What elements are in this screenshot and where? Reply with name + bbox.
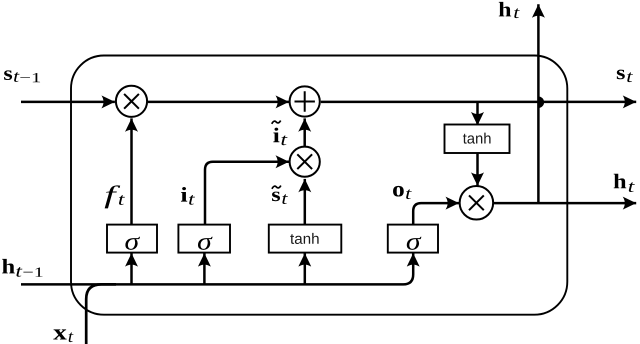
label o(t) <box>393 186 412 199</box>
plus node <box>290 86 320 116</box>
sigma box f gate <box>107 225 157 253</box>
wire candidate multiply up into plus node <box>303 118 306 146</box>
wire hop bump at crossing <box>538 97 543 107</box>
label s-tilde(t) <box>272 186 288 204</box>
label f(t) <box>105 185 125 208</box>
wire output multiply to h(t) right output <box>493 202 636 205</box>
wire o gate up and right into output multiply <box>413 203 459 225</box>
wire tanh box down to output multiply <box>476 153 479 186</box>
label i(t) <box>181 187 195 205</box>
wire s(t-1) input to multiply node <box>21 101 115 104</box>
wire h(t) branch vertical with hop over s line <box>537 4 540 203</box>
wire i gate up and right into candidate multiply <box>205 162 289 225</box>
label h(t) right <box>614 174 635 192</box>
wire x(t) input curving onto input line <box>86 284 116 344</box>
wire h(t-1) input line with branch arrows into gates <box>21 253 413 284</box>
wire multiply node to plus node <box>148 101 289 104</box>
label s(t-1) <box>4 70 40 82</box>
wire branch up into f sigma <box>130 253 133 284</box>
cell body rounded rectangle <box>71 56 567 315</box>
tanh box candidate <box>269 225 342 253</box>
multiply node output <box>460 186 494 220</box>
wire branch up into i sigma <box>203 253 206 284</box>
wire f gate vertical to multiply node <box>130 118 133 224</box>
sigma box i gate <box>178 225 230 253</box>
label i-tilde(t) <box>272 121 288 146</box>
tanh box output <box>445 125 510 154</box>
sigma box o gate <box>388 225 438 253</box>
label x(t) <box>53 329 73 342</box>
label h(t-1) <box>2 259 42 277</box>
multiply node candidate <box>290 147 320 177</box>
wire plus node to s(t) output <box>321 101 636 104</box>
wire candidate s-tilde vertical from tanh to multiply <box>304 179 307 225</box>
wire branch down from s line into tanh box <box>476 103 479 126</box>
multiply node forget gate <box>116 86 147 117</box>
wire branch up into candidate tanh <box>304 253 307 284</box>
label h(t) top <box>499 2 520 18</box>
label s(t) right <box>617 70 633 82</box>
